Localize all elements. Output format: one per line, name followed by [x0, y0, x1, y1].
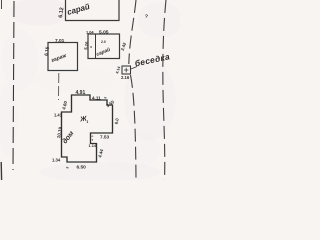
boundary dashed line right 1 (lower part)	[131, 75, 137, 180]
svg-text:6.50: 6.50	[77, 165, 87, 171]
svg-text:5.05: 5.05	[99, 30, 109, 36]
svg-text:7.01: 7.01	[55, 38, 65, 44]
svg-text:2.0: 2.0	[101, 40, 106, 44]
gazebo (беседка) square	[122, 66, 131, 74]
svg-text:7.53: 7.53	[100, 135, 110, 140]
shed S1 (top, cut by page edge)	[66, 0, 120, 21]
svg-text:1: 1	[87, 120, 89, 124]
page edge line bottom-left	[0, 162, 2, 180]
svg-text:ɔ: ɔ	[90, 45, 92, 49]
gazebo cross mark	[124, 68, 128, 73]
house (дом) outline	[62, 95, 113, 162]
svg-text:2.16: 2.16	[121, 75, 130, 80]
svg-text:1.34: 1.34	[52, 158, 61, 163]
boundary dashed line right 1 (upper part, bends to gazebo)	[129, 0, 136, 64]
svg-text:1.04: 1.04	[86, 30, 94, 35]
page edge line top-left	[1, 0, 3, 9]
garage box	[48, 43, 78, 71]
annex divider	[95, 34, 97, 59]
boundary dashed line left	[13, 1, 14, 170]
svg-text:4.11: 4.11	[92, 96, 101, 101]
paper background	[0, 0, 180, 180]
fence dashed line between garage and house	[58, 73, 60, 100]
leader dash to беседка	[131, 67, 137, 70]
boundary dashed line right 2	[163, 0, 166, 180]
svg-text:1.14: 1.14	[89, 143, 97, 148]
svg-text:1.41: 1.41	[54, 113, 63, 118]
svg-text:4.91: 4.91	[76, 90, 86, 96]
shed S2 (middle right, with annex strip)	[88, 34, 120, 59]
